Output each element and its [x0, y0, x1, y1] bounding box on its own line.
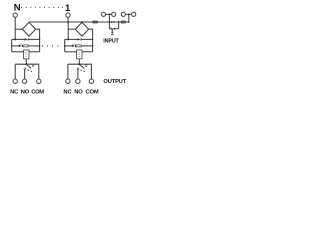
wire: pair 1 drop	[108, 14, 110, 28]
wire: channel 1 left rail	[11, 39, 13, 51]
junction: coil link on contact line	[25, 63, 27, 65]
terminal NO channel 1	[22, 79, 26, 83]
wire: stub below lower branch	[111, 29, 113, 32]
terminal COM channel 1	[37, 79, 41, 83]
junction: diode row right rail	[39, 39, 40, 40]
input terminal B	[112, 12, 116, 16]
junction: LED row right rail channel 2	[92, 45, 93, 46]
svg-text:NO: NO	[21, 89, 30, 95]
junction: pair 2 drop on rail	[128, 21, 130, 23]
terminal COM channel 2	[89, 79, 93, 83]
svg-text:NC: NC	[63, 89, 72, 95]
junction: bridge top on rail	[81, 21, 83, 23]
input diode D4 (reversed)	[111, 28, 115, 30]
resistor R4 on rail	[121, 21, 126, 23]
wire: N terminal down	[14, 17, 16, 39]
svg-text:NC: NC	[10, 89, 19, 95]
diode D2	[78, 38, 82, 40]
junction: pair 1	[108, 13, 110, 15]
wire: NC stub channel 1	[14, 64, 16, 79]
junction: pair 1 drop on rail	[109, 21, 111, 23]
contact pivot circle	[32, 65, 34, 67]
contact pivot circle channel 2	[85, 65, 87, 67]
bridge rectifier B1 (channel 1)	[22, 22, 35, 36]
svg-text:INPUT: INPUT	[103, 38, 119, 44]
svg-text:COM: COM	[85, 89, 98, 95]
contact arrows	[28, 70, 33, 73]
svg-text:1: 1	[65, 3, 71, 14]
junction: LED row right rail	[39, 45, 40, 46]
input terminal D	[132, 12, 136, 16]
junction: pair 2	[128, 13, 130, 15]
terminal NC channel 1	[13, 79, 17, 83]
wire: link terminals A-B	[106, 13, 112, 15]
junction: LED row left rail	[11, 45, 12, 46]
wire: NO stub channel 2	[77, 70, 79, 79]
contact arrows channel 2	[81, 70, 86, 73]
wire: bridge right to right rail, channel 2	[89, 29, 93, 52]
dotted continuation line between N and 1	[21, 7, 63, 8]
bridge rectifier B2 (channel 2)	[75, 22, 88, 36]
resistor R2	[76, 45, 82, 47]
junction: LED row left rail channel 2	[64, 45, 66, 47]
svg-text:COM: COM	[31, 89, 44, 95]
svg-text:NO: NO	[74, 89, 83, 95]
wire: coil link down channel 2	[78, 59, 80, 64]
wire: coil link down	[25, 59, 27, 64]
LED1	[19, 45, 23, 47]
wire: lower branch	[109, 28, 111, 30]
wire: link terminals C-D	[126, 13, 132, 15]
diode D1	[25, 38, 29, 40]
contact arm channel 1	[27, 65, 32, 69]
wire: rail drop to channel 2	[67, 22, 69, 39]
wire: diode row channel 2	[65, 38, 78, 40]
junction: drop line on diode row channel 2	[67, 38, 69, 40]
wire: diode row channel 1	[12, 38, 25, 40]
resistor R1	[23, 45, 29, 47]
ellipsis dots between channels	[42, 45, 59, 46]
wire: lower branch right leg	[118, 22, 120, 29]
resistor R3 on rail	[93, 21, 98, 23]
relay coil K1	[24, 50, 29, 59]
junction: N line on diode row	[14, 38, 16, 40]
wire: contact common line channel 1	[15, 64, 39, 79]
NO contact circle	[24, 68, 26, 70]
junction: coil link on contact line channel 2	[78, 63, 80, 65]
input terminal A	[101, 12, 105, 16]
wire: coil row channel 2	[65, 51, 77, 53]
wire: LED row channel 2	[65, 45, 72, 47]
wire: LED row channel 1	[12, 45, 19, 47]
input terminal C	[121, 12, 125, 16]
wire: terminal 1 down to rail	[67, 17, 69, 22]
contact arm channel 2	[80, 65, 85, 69]
wire: channel 2 left rail	[64, 39, 66, 51]
terminal NO channel 2	[76, 79, 80, 83]
wire: bridge right to right rail, channel 1	[36, 29, 40, 52]
wire: pair 2 drop	[128, 14, 130, 22]
junction: diode row right rail channel 2	[92, 39, 93, 40]
terminal 1	[66, 13, 70, 17]
svg-text:N: N	[14, 3, 21, 14]
wire: contact common line channel 2	[68, 64, 92, 79]
wire: NO stub channel 1	[24, 70, 26, 79]
wire: coil row channel 1	[12, 51, 24, 53]
zener mark below	[111, 32, 114, 35]
NO contact circle channel 2	[77, 68, 79, 70]
input diode D3 on rail	[111, 21, 114, 23]
wire: drop to bridge AC left channel 2	[68, 28, 75, 30]
terminal NC channel 2	[66, 79, 70, 83]
wire: NC stub channel 2	[67, 64, 69, 79]
wire: N to bridge AC left	[15, 28, 22, 30]
terminal N	[13, 13, 17, 17]
svg-text:OUTPUT: OUTPUT	[103, 79, 126, 85]
wire: top supply rail	[29, 21, 129, 23]
LED2	[72, 45, 76, 47]
junction: right leg on rail	[118, 21, 120, 23]
relay coil K2	[77, 50, 82, 59]
junction: drop on rail	[67, 21, 69, 23]
